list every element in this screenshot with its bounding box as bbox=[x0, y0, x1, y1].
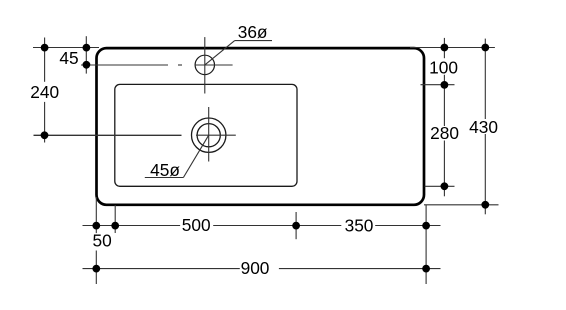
svg-text:36ø: 36ø bbox=[238, 22, 268, 42]
svg-text:45ø: 45ø bbox=[150, 160, 180, 180]
svg-text:100: 100 bbox=[429, 58, 458, 78]
svg-text:900: 900 bbox=[241, 258, 270, 278]
svg-text:280: 280 bbox=[430, 123, 459, 143]
svg-text:240: 240 bbox=[30, 82, 59, 102]
svg-text:500: 500 bbox=[182, 215, 211, 235]
svg-text:50: 50 bbox=[92, 231, 111, 251]
svg-text:45: 45 bbox=[59, 48, 78, 68]
svg-text:350: 350 bbox=[345, 215, 374, 235]
svg-text:430: 430 bbox=[469, 117, 498, 137]
